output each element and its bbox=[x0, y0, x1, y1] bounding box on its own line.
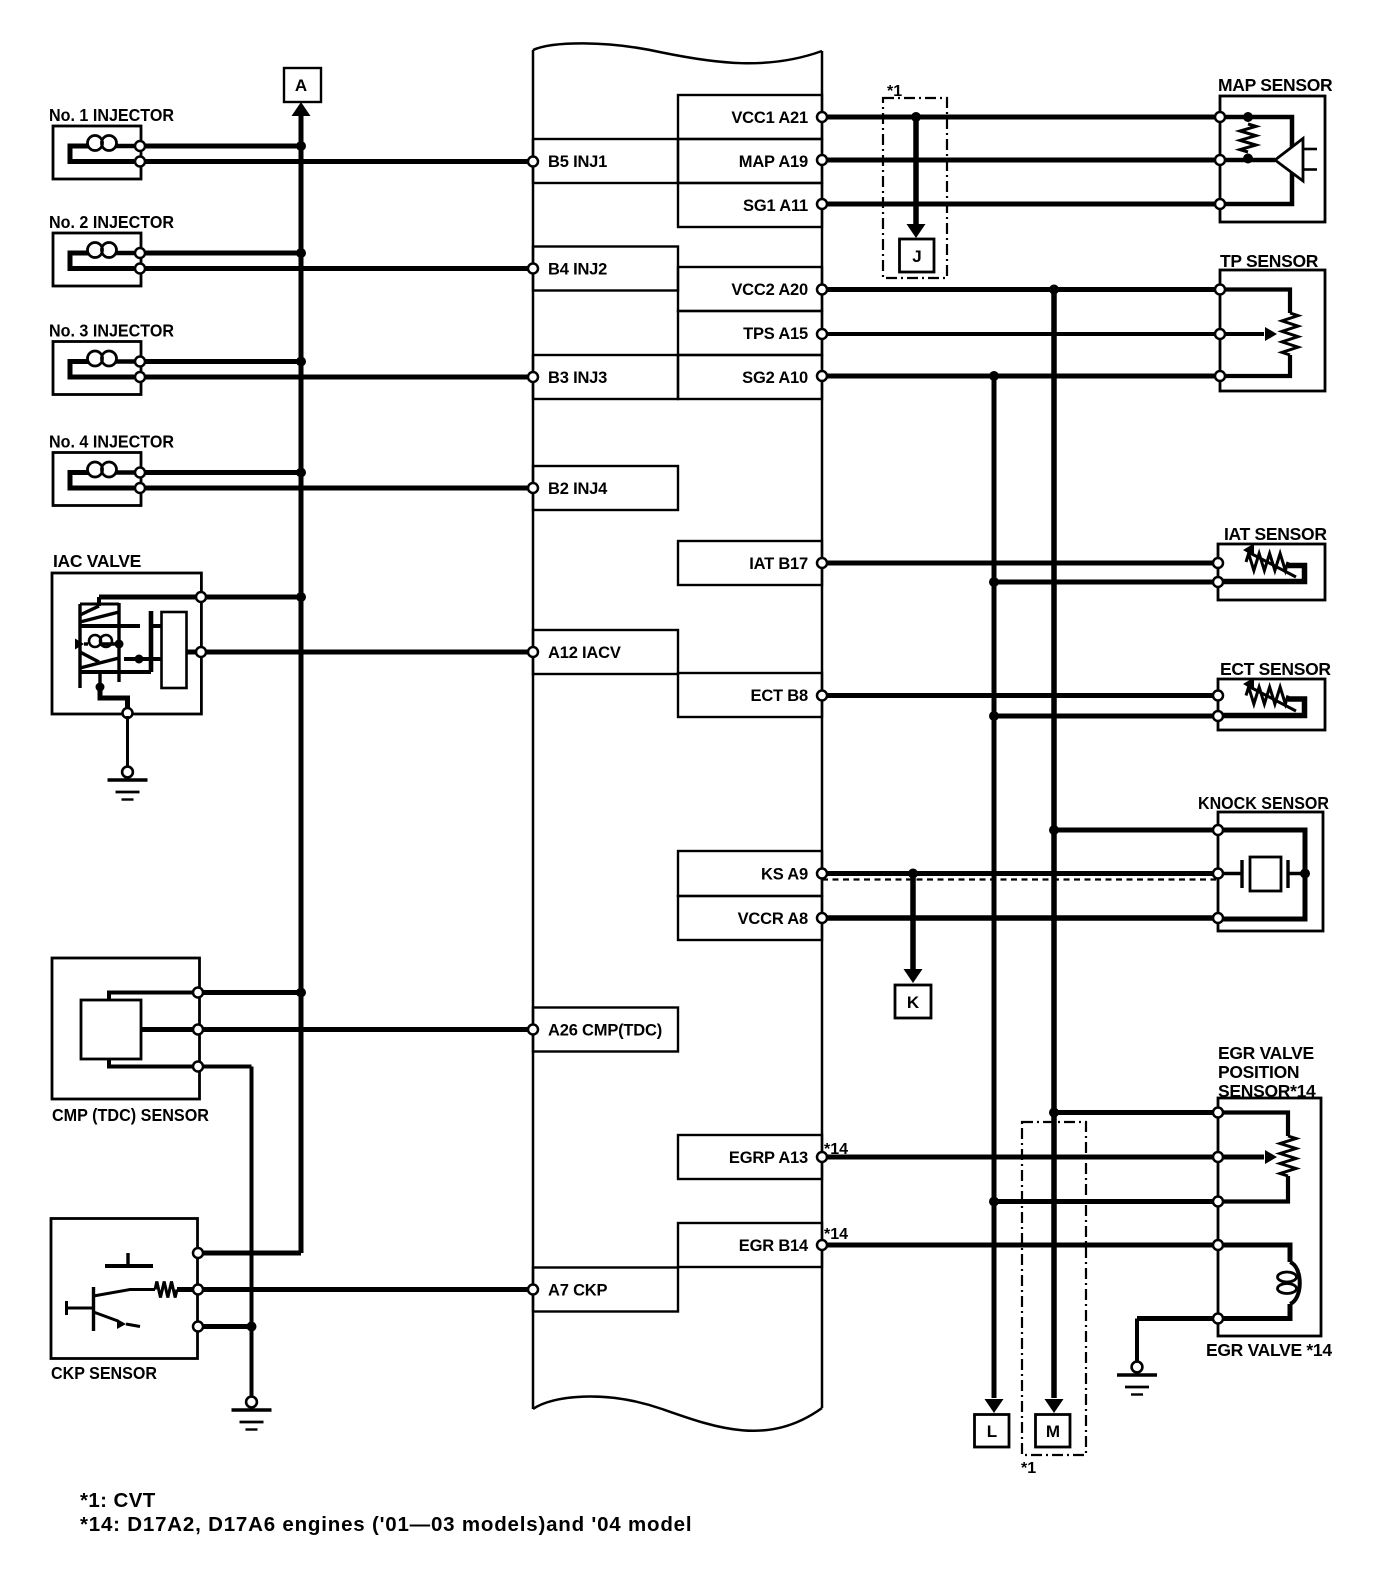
svg-text:TP SENSOR: TP SENSOR bbox=[1220, 251, 1319, 271]
svg-text:No. 2 INJECTOR: No. 2 INJECTOR bbox=[49, 212, 174, 232]
svg-text:L: L bbox=[987, 1422, 997, 1441]
svg-text:TPS A15: TPS A15 bbox=[743, 325, 808, 343]
svg-text:ECT B8: ECT B8 bbox=[751, 687, 809, 705]
svg-text:IAT B17: IAT B17 bbox=[749, 555, 808, 573]
svg-text:B4 INJ2: B4 INJ2 bbox=[548, 261, 607, 279]
svg-text:A12 IACV: A12 IACV bbox=[548, 644, 621, 662]
svg-text:EGRP A13: EGRP A13 bbox=[729, 1149, 808, 1167]
svg-text:No. 4 INJECTOR: No. 4 INJECTOR bbox=[49, 432, 174, 452]
svg-text:VCCR A8: VCCR A8 bbox=[738, 910, 808, 928]
svg-text:A26 CMP(TDC): A26 CMP(TDC) bbox=[548, 1022, 662, 1040]
svg-text:IAC VALVE: IAC VALVE bbox=[53, 551, 141, 571]
svg-text:K: K bbox=[907, 993, 920, 1012]
svg-text:EGR B14: EGR B14 bbox=[739, 1237, 809, 1255]
svg-text:CMP (TDC) SENSOR: CMP (TDC) SENSOR bbox=[52, 1105, 209, 1125]
svg-text:MAP A19: MAP A19 bbox=[739, 153, 808, 171]
svg-text:EGR VALVE *14: EGR VALVE *14 bbox=[1206, 1340, 1332, 1360]
svg-text:*14: D17A2, D17A6 engines ('01: *14: D17A2, D17A6 engines ('01—03 models… bbox=[80, 1513, 692, 1536]
svg-text:No. 1 INJECTOR: No. 1 INJECTOR bbox=[49, 105, 174, 125]
svg-text:A7 CKP: A7 CKP bbox=[548, 1282, 608, 1300]
svg-text:*1: *1 bbox=[887, 83, 902, 100]
svg-text:MAP SENSOR: MAP SENSOR bbox=[1218, 75, 1333, 95]
svg-text:CKP SENSOR: CKP SENSOR bbox=[51, 1363, 157, 1383]
svg-text:EGR VALVE: EGR VALVE bbox=[1218, 1043, 1314, 1063]
svg-text:M: M bbox=[1046, 1422, 1060, 1441]
svg-text:A: A bbox=[295, 76, 307, 95]
svg-text:B5 INJ1: B5 INJ1 bbox=[548, 153, 607, 171]
svg-text:KS A9: KS A9 bbox=[761, 866, 808, 884]
svg-text:VCC1 A21: VCC1 A21 bbox=[731, 109, 808, 127]
svg-text:*14: *14 bbox=[824, 1226, 848, 1243]
svg-text:VCC2 A20: VCC2 A20 bbox=[731, 281, 808, 299]
svg-text:J: J bbox=[912, 247, 921, 266]
svg-text:KNOCK SENSOR: KNOCK SENSOR bbox=[1198, 793, 1329, 813]
svg-text:B3 INJ3: B3 INJ3 bbox=[548, 369, 607, 387]
svg-text:IAT SENSOR: IAT SENSOR bbox=[1224, 524, 1327, 544]
svg-text:SG1 A11: SG1 A11 bbox=[743, 197, 808, 215]
svg-text:POSITION: POSITION bbox=[1218, 1062, 1299, 1082]
svg-text:ECT SENSOR: ECT SENSOR bbox=[1220, 659, 1331, 679]
svg-text:B2 INJ4: B2 INJ4 bbox=[548, 480, 608, 498]
svg-text:*1: *1 bbox=[1021, 1460, 1036, 1477]
svg-text:*1: CVT: *1: CVT bbox=[80, 1489, 156, 1512]
svg-text:SG2 A10: SG2 A10 bbox=[742, 369, 808, 387]
svg-text:No. 3 INJECTOR: No. 3 INJECTOR bbox=[49, 321, 174, 341]
